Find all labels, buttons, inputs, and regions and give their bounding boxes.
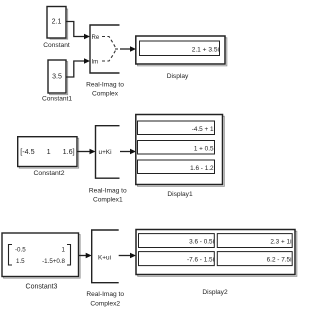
svg-text:Complex2: Complex2: [90, 301, 120, 308]
svg-text:Re: Re: [92, 35, 100, 41]
svg-text:Complex1: Complex1: [93, 197, 123, 204]
svg-text:Real-Imag to: Real-Imag to: [86, 291, 124, 298]
svg-text:1.6 - 1.2i: 1.6 - 1.2i: [190, 165, 215, 172]
wire Constant1 to Im input: [66, 61, 85, 77]
constant block Constant3 (matrix): [2, 233, 80, 278]
svg-text:6.2 - 7.5i: 6.2 - 7.5i: [267, 257, 292, 264]
svg-text:Im: Im: [92, 60, 99, 66]
svg-text:-1.5+0.8: -1.5+0.8: [42, 258, 65, 265]
svg-text:Display2: Display2: [202, 289, 228, 296]
svg-text:3.5: 3.5: [52, 74, 62, 81]
svg-text:K+ui: K+ui: [98, 255, 111, 262]
svg-text:Complex: Complex: [92, 91, 119, 98]
svg-text:Real-Imag to: Real-Imag to: [86, 82, 124, 89]
block U1 Real-Imag to Complex: [90, 25, 120, 73]
svg-text:Constant: Constant: [43, 42, 70, 49]
svg-text:[-4.5 1 1.6]: [-4.5 1 1.6]: [20, 147, 74, 156]
svg-text:-7.6 - 1.5i: -7.6 - 1.5i: [187, 257, 214, 264]
constant block Constant (2.1): [47, 7, 68, 40]
svg-text:1 + 0.5i: 1 + 0.5i: [194, 145, 215, 152]
svg-text:3.6 - 0.5i: 3.6 - 0.5i: [189, 239, 214, 246]
svg-text:Constant1: Constant1: [42, 96, 72, 103]
svg-text:u+Ki: u+Ki: [99, 149, 112, 156]
constant block Constant1 (3.5): [48, 60, 68, 95]
svg-text:1.5: 1.5: [16, 258, 25, 265]
svg-text:Constant2: Constant2: [34, 170, 65, 177]
svg-text:Display: Display: [167, 73, 189, 80]
svg-text:Constant3: Constant3: [26, 284, 58, 291]
svg-text:2.3 + 1i: 2.3 + 1i: [270, 239, 291, 246]
display block Display1: [136, 115, 225, 187]
block U3 Real-Imag to Complex2: [92, 230, 119, 283]
svg-text:Real-Imag to: Real-Imag to: [89, 188, 127, 195]
block U2 Real-Imag to Complex1: [96, 126, 120, 179]
svg-text:Display1: Display1: [167, 191, 193, 198]
svg-text:2.1: 2.1: [52, 19, 62, 26]
wire Constant3 to U3: [79, 255, 87, 257]
svg-text:1: 1: [62, 247, 66, 254]
wire Constant2 to U2: [77, 151, 90, 153]
wire U2 output to Display1: [120, 151, 131, 153]
display block Display: [136, 36, 227, 66]
display block Display2: [136, 230, 297, 277]
wire U1 output to Display: [120, 48, 131, 50]
svg-text:-0.5: -0.5: [15, 247, 26, 254]
wire U3 output to Display2: [119, 255, 131, 257]
svg-text:-4.5 + 1i: -4.5 + 1i: [192, 126, 215, 133]
wire Constant to Re input: [66, 22, 85, 37]
svg-text:2.1 + 3.5i: 2.1 + 3.5i: [192, 46, 220, 53]
constant block Constant2: [18, 137, 79, 168]
